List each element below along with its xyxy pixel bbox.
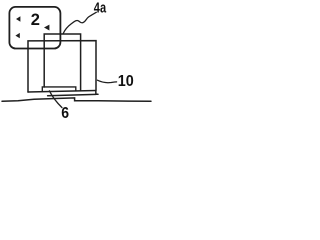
button triangle center <box>44 25 49 31</box>
ground line <box>2 98 151 101</box>
button triangle left-top <box>16 16 20 21</box>
operating unit 2 (rounded device body) <box>9 7 60 49</box>
leader line to 10 <box>97 80 116 82</box>
housing bottom edge <box>28 91 96 93</box>
button triangle left-bottom <box>15 33 19 38</box>
housing 10 (wide box) <box>28 41 96 92</box>
base plate 6 (bottom line) <box>48 94 96 95</box>
leader line to 6 <box>49 91 62 108</box>
svg-text:4a: 4a <box>94 1 107 17</box>
base plate 6 top outline with end hooks <box>42 87 76 91</box>
svg-text:6: 6 <box>61 105 69 120</box>
wavy leader line to 4a <box>63 12 96 33</box>
svg-text:10: 10 <box>118 73 134 90</box>
housing right foot step <box>96 91 98 95</box>
inner cabinet 4a (tall box) <box>44 34 80 91</box>
svg-text:2: 2 <box>31 11 40 29</box>
